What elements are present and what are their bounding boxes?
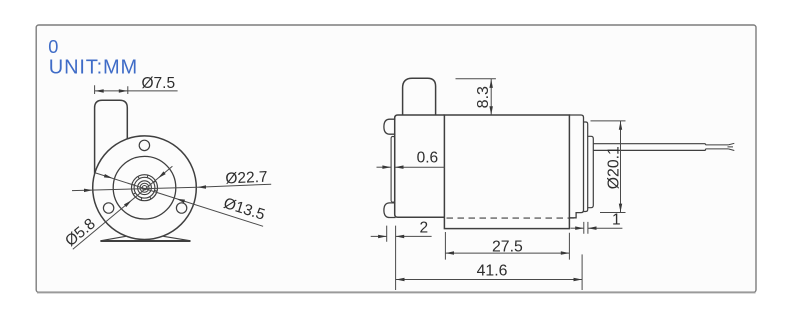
- dim 8.3 extension line: [456, 78, 496, 80]
- bearing boss: [588, 136, 594, 207]
- svg-text:27.5: 27.5: [492, 238, 523, 255]
- gasket strip 0.6: [391, 136, 395, 202]
- svg-text:Ø22.7: Ø22.7: [225, 169, 268, 188]
- shaft circle: [140, 183, 149, 192]
- dim 0.6 left leader: [377, 166, 392, 168]
- dim 1 extension ticks: [584, 222, 588, 234]
- bolt hole top: [139, 140, 149, 150]
- dim 41.6 line: [396, 279, 582, 281]
- dim 1 right leader: [588, 227, 623, 229]
- svg-text:8.3: 8.3: [475, 86, 492, 108]
- dim arrow O5.8 lower: [124, 200, 132, 207]
- pump head rect: [395, 115, 445, 217]
- svg-text:Ø7.5: Ø7.5: [141, 75, 175, 92]
- dim arrow O20.1 bottom: [619, 204, 622, 213]
- hub circle 2: [134, 177, 155, 198]
- dim arrow 8.3 top: [489, 79, 493, 88]
- wire fork ends: [728, 143, 735, 150]
- svg-text:UNIT:MM: UNIT:MM: [49, 56, 138, 78]
- pump head bottom mounting tab: [384, 203, 396, 218]
- pump body outer circle: [93, 136, 197, 240]
- dim 27.5 line: [445, 252, 569, 254]
- dim arrow 27.5 left: [445, 251, 454, 255]
- dim arrow O13.5 left: [104, 174, 113, 178]
- dim arrow O20.1 top: [619, 121, 622, 130]
- shaft tip: [706, 145, 729, 149]
- hub circle 3: [138, 181, 152, 195]
- dim 1 left leader: [571, 227, 584, 229]
- end cap ring: [584, 122, 588, 212]
- dim arrow 8.3 bottom: [489, 106, 493, 115]
- svg-text:0: 0: [48, 37, 58, 57]
- hub knurl ticks: [132, 175, 158, 201]
- dim arrow 1 left: [575, 226, 584, 230]
- dim O13.5 line: [95, 173, 264, 227]
- dim 27.5 extension lines: [445, 232, 569, 260]
- bolt hole left: [103, 203, 113, 213]
- shaft center circle: [142, 186, 146, 190]
- dim O7.5 line: [95, 90, 178, 92]
- dim 2 right leader: [396, 235, 432, 237]
- dim O22.7 line through circle: [72, 187, 197, 190]
- base foot: [101, 236, 190, 240]
- outlet pipe front view: [95, 100, 128, 173]
- dim arrow 41.6 right: [574, 278, 583, 281]
- dim O22.7 leader: [197, 184, 271, 187]
- hub circle outer: [132, 175, 158, 201]
- dim 2 left leader: [371, 235, 387, 237]
- dim arrow 41.6 left: [396, 278, 405, 281]
- dim 8.3 line: [490, 79, 492, 115]
- svg-text:2: 2: [419, 220, 428, 237]
- dim arrow 0.6 left: [382, 165, 391, 169]
- dim arrow 27.5 right: [561, 251, 570, 255]
- dim arrow 1 right: [588, 226, 597, 230]
- svg-text:0.6: 0.6: [417, 150, 439, 167]
- dim O7.5 extension ticks: [95, 85, 128, 94]
- dim 41.6 right extension line: [581, 254, 583, 290]
- dim arrow O5.8 upper: [158, 171, 166, 178]
- flange circle: [113, 156, 176, 219]
- dim 0.6 right leader: [395, 166, 445, 168]
- bolt hole right: [176, 203, 186, 213]
- dim O5.8 line: [73, 166, 173, 249]
- svg-text:1: 1: [612, 211, 621, 228]
- motor body rect: [444, 115, 569, 229]
- drawing border frame: [36, 25, 756, 292]
- hidden chamber dashed line: [447, 217, 575, 219]
- shaft: [593, 144, 705, 151]
- dim arrow 2 left: [378, 235, 387, 239]
- dim arrow O13.5 right: [176, 199, 185, 203]
- outlet pipe side view: [403, 78, 436, 115]
- dim arrow 0.6 right: [395, 165, 404, 169]
- dim arrow O22.7 right: [197, 185, 206, 189]
- dim O20.1 extension lines: [591, 121, 626, 213]
- dim arrow O22.7 left: [84, 189, 93, 193]
- svg-text:Ø20.1: Ø20.1: [605, 146, 622, 189]
- dim O20.1 line: [620, 121, 622, 213]
- motor end cap: [569, 115, 583, 218]
- dim arrow O7.5 left: [95, 89, 104, 93]
- dim 2 extension ticks: [387, 226, 396, 290]
- dim arrow O7.5 right: [119, 89, 128, 93]
- dim arrow 2 right: [396, 235, 405, 239]
- pump head top mounting tab: [384, 119, 396, 134]
- svg-text:41.6: 41.6: [477, 262, 508, 279]
